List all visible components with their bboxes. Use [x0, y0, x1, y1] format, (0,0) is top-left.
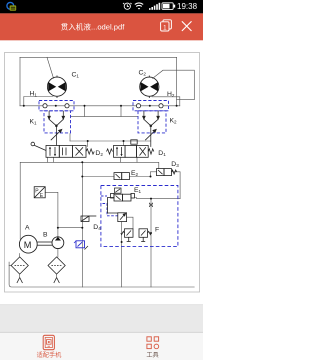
- wire supply bus above valves: [70, 140, 151, 142]
- wire H1: [24, 97, 53, 106]
- K2 check valves: [143, 111, 160, 127]
- svg-text:适配手机: 适配手机: [37, 351, 63, 359]
- wire pump discharge: [58, 227, 82, 229]
- wire D3 left: [151, 171, 157, 173]
- directional valve D1: [107, 140, 154, 158]
- svg-text:K2: K2: [170, 118, 178, 125]
- pump B: [52, 237, 64, 249]
- wire motor to filter stub: [19, 254, 21, 257]
- wire E2 right riser: [130, 172, 151, 177]
- wire pump suction: [57, 249, 59, 257]
- pilot line blue dashed: [103, 204, 118, 216]
- wire left vertical: [19, 57, 21, 106]
- wire C2 top branch: [153, 70, 195, 100]
- valve E2: [114, 173, 129, 180]
- wire E1 right: [134, 198, 180, 199]
- svg-text:M: M: [24, 240, 32, 250]
- wire F-left vertical: [121, 222, 123, 287]
- electric motor A: [19, 235, 37, 253]
- tools icon: [147, 337, 159, 349]
- svg-text:D4: D4: [93, 224, 101, 231]
- svg-text:E1: E1: [134, 187, 142, 194]
- svg-text:D1: D1: [158, 150, 166, 157]
- wire filter1 tank: [19, 275, 21, 278]
- svg-text:H2: H2: [167, 91, 175, 98]
- shuttle K2 balls: [136, 104, 140, 108]
- throttle D4 symbol: [81, 216, 96, 222]
- svg-text:H1: H1: [30, 91, 38, 98]
- wire mid link: [71, 115, 139, 117]
- relief valves F: [121, 229, 151, 242]
- wire top bus: [20, 56, 177, 58]
- svg-text:D3: D3: [171, 161, 179, 168]
- wire orifice riser: [150, 199, 152, 287]
- valve D3: [157, 169, 177, 176]
- filter 2: [48, 257, 65, 274]
- motor C1: [47, 76, 66, 99]
- wire H2: [152, 97, 180, 106]
- svg-text:D2: D2: [95, 150, 103, 157]
- wire relief right: [127, 217, 133, 229]
- directional valve D2: [31, 142, 94, 157]
- wire D2 tank stub 1: [47, 157, 49, 162]
- wire K1 mid stub: [84, 106, 86, 117]
- valve E1 pilot stage: [115, 188, 122, 193]
- orifice symbol: [149, 203, 153, 207]
- shuttle K1 balls: [43, 104, 47, 108]
- wire D3 right drop: [172, 172, 181, 199]
- battery icon: [162, 3, 175, 10]
- junction dots: [23, 105, 178, 243]
- K2 center drop: [150, 126, 152, 147]
- shuttle valve K2 dashed box: [133, 101, 169, 111]
- svg-text:C1: C1: [72, 72, 80, 79]
- svg-text:贯入机液...odel.pdf: 贯入机液...odel.pdf: [61, 21, 126, 31]
- wire D2 tank stub 2: [53, 157, 55, 162]
- svg-text:K1: K1: [30, 119, 38, 126]
- relief valve in box: [108, 198, 127, 222]
- wire shuttle line: [20, 105, 180, 107]
- wifi icon: [135, 3, 143, 7]
- wire K1 box drain: [69, 134, 71, 142]
- wire P/E link: [45, 192, 58, 237]
- blue compensator valve: [74, 241, 85, 248]
- wire return drop to motor A: [19, 162, 21, 239]
- drawing frame: [5, 53, 200, 293]
- K2 variable throttle: [145, 129, 156, 140]
- wire E2 feed: [82, 176, 114, 178]
- backgrounds: [0, 0, 203, 360]
- svg-text:C2: C2: [139, 70, 147, 77]
- K1 check valves: [48, 111, 65, 127]
- motor C2: [140, 76, 159, 99]
- close X icon: [182, 22, 191, 31]
- orange title bar: [0, 13, 203, 40]
- K2 check block dashed box: [138, 111, 166, 133]
- pilot stub blue: [101, 195, 107, 197]
- status notification icon (blue circle + green lock): [7, 2, 16, 10]
- signal bars: [149, 3, 160, 10]
- wire tank bus: [9, 262, 194, 287]
- main manifold dashed box: [101, 186, 178, 247]
- K1 check block dashed box: [44, 111, 71, 133]
- status bar: [0, 0, 203, 13]
- svg-text:19:38: 19:38: [177, 2, 198, 11]
- wire D1 tank stub 2: [136, 157, 138, 162]
- wire K2 mid stub: [120, 106, 122, 117]
- shaft: [37, 242, 52, 245]
- wire filter2 tank: [56, 275, 58, 278]
- alarm clock icon: [123, 3, 132, 9]
- svg-text:工具: 工具: [146, 352, 158, 359]
- wire return line: [20, 162, 159, 168]
- P/E converter box: [34, 187, 45, 198]
- wire right vertical to K2: [176, 57, 178, 106]
- wire bus stub D1: [123, 141, 125, 146]
- wire C1 top branch: [47, 57, 54, 78]
- wire filter left link: [9, 265, 11, 267]
- svg-text:F: F: [155, 227, 159, 234]
- svg-text:E2: E2: [131, 170, 139, 177]
- wire bus stub D2: [87, 141, 89, 147]
- svg-text:B: B: [43, 232, 48, 239]
- shuttle valve K1 dashed box: [39, 101, 74, 111]
- phone adapt icon: [43, 335, 54, 349]
- K1 variable throttle: [51, 129, 62, 140]
- tank symbol 1: [17, 278, 23, 284]
- filter 1: [11, 257, 28, 274]
- pages icon with 1: [161, 20, 172, 31]
- page bottom edge: [0, 304, 203, 306]
- svg-text:A: A: [25, 225, 30, 232]
- valve E1: [111, 193, 135, 201]
- K1 center drop: [55, 126, 57, 146]
- tank symbol 2: [54, 278, 60, 284]
- wire main riser: [81, 162, 83, 287]
- wire D1 tank stub 1: [120, 157, 122, 162]
- svg-text:1: 1: [163, 24, 167, 31]
